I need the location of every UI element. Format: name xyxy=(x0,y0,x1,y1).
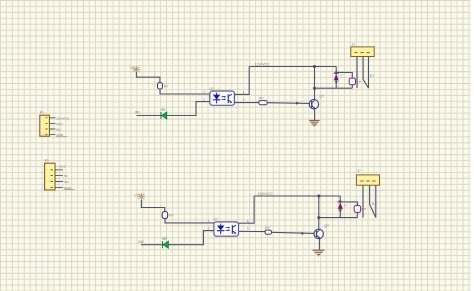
wire collector riser Q2 xyxy=(318,196,320,230)
junction (collector node top) xyxy=(313,65,316,68)
svg-text:J?: J? xyxy=(352,43,356,47)
wire U2 pin4 riser xyxy=(239,196,255,223)
svg-text:2: 2 xyxy=(203,98,205,102)
svg-text:U?: U? xyxy=(213,218,217,222)
svg-text:D?: D? xyxy=(344,203,348,207)
relay contact pins (bottom) xyxy=(362,185,364,217)
U2 phototransistor xyxy=(231,225,233,234)
net 12V/VCC wire (top) xyxy=(249,66,336,68)
connector P1 (4-pin, left top) xyxy=(40,111,70,137)
relay contact pins (top) xyxy=(356,57,358,89)
svg-text:2: 2 xyxy=(208,227,210,231)
svg-text:VCC: VCC xyxy=(135,193,143,197)
resistor R4 (base, bottom) xyxy=(265,230,271,234)
power VCC (top) xyxy=(133,66,141,72)
svg-text:3: 3 xyxy=(243,98,245,102)
svg-text:D?: D? xyxy=(340,73,344,77)
wire U1 pin3 to R2 xyxy=(234,102,258,104)
wire diode branch (bottom circuit) xyxy=(339,196,341,218)
svg-text:1: 1 xyxy=(208,219,210,223)
svg-text:R?: R? xyxy=(164,85,168,89)
svg-text:R?: R? xyxy=(265,226,269,230)
junction (loop bottom bottom circuit) xyxy=(317,216,320,219)
svg-text:Q?: Q? xyxy=(324,224,329,228)
svg-text:L?: L? xyxy=(164,237,168,241)
relay linkage dashes (bottom) xyxy=(362,208,366,210)
net 12V/VCC wire (bottom) xyxy=(254,195,340,197)
relay contact arm (bottom) xyxy=(370,204,376,217)
ground (top) xyxy=(309,120,319,125)
svg-text:4: 4 xyxy=(243,90,245,94)
transistor Q2 xyxy=(314,224,329,239)
wire U1 pin4 riser xyxy=(234,67,249,95)
junction (diode anode node top circuit) xyxy=(335,81,337,83)
wire coil branch (top circuit) xyxy=(336,72,352,78)
svg-text:Q?: Q? xyxy=(319,94,324,98)
junction (diode cathode node top circuit) xyxy=(335,71,337,73)
wire loop bottom (top circuit) xyxy=(315,87,353,89)
wire coil bottom (bottom circuit) xyxy=(356,213,358,218)
wire IN2 to LED L2 xyxy=(141,244,163,246)
resistor R3 xyxy=(162,212,167,219)
U1 led xyxy=(213,95,220,100)
U2 light arrows xyxy=(226,228,229,231)
connector J2 (3-pin, bottom right) xyxy=(356,169,379,185)
relay linkage dashes (top) xyxy=(357,80,361,82)
svg-text:12V/VCC: 12V/VCC xyxy=(255,63,271,67)
connector J1 (3-pin, top right) xyxy=(351,43,374,57)
relay coil K2 xyxy=(354,205,360,212)
svg-text:IN1: IN1 xyxy=(56,128,61,132)
U1 light arrows xyxy=(222,97,225,100)
svg-text:12V/VCC: 12V/VCC xyxy=(258,192,274,196)
U2 led xyxy=(217,226,224,231)
svg-text:J?: J? xyxy=(357,169,361,173)
wire IN1 to LED L1 xyxy=(137,115,162,117)
svg-text:1: 1 xyxy=(203,90,205,94)
LED L1 (green) xyxy=(161,108,167,119)
svg-text:IN2: IN2 xyxy=(139,240,144,244)
connector P2 (4-pin, left bottom) xyxy=(45,159,75,190)
wire R1 to U1 pin1 xyxy=(160,89,210,94)
svg-text:L?: L? xyxy=(162,108,166,112)
optocoupler U2 xyxy=(208,218,249,237)
wire R2 to Q1 base xyxy=(267,102,309,105)
resistor R1 xyxy=(158,83,163,89)
svg-text:3: 3 xyxy=(247,227,249,231)
wire VCC to R3 xyxy=(141,200,164,212)
wire R4 to Q2 base xyxy=(272,232,315,233)
svg-text:U?: U? xyxy=(209,87,213,91)
svg-text:12V/VCC: 12V/VCC xyxy=(56,116,70,120)
junction (diode anode node bottom circuit) xyxy=(339,210,341,212)
diode D1 (magenta flyback) xyxy=(334,73,344,80)
wire Q1 emitter to ground xyxy=(314,109,316,120)
base entry arrow (bottom) xyxy=(302,232,305,235)
transistor Q1 xyxy=(309,94,324,109)
wire collector riser Q1 xyxy=(314,67,316,101)
wire coil bottom (top circuit) xyxy=(351,85,353,88)
base entry arrow (top) xyxy=(296,102,299,105)
svg-text:P?: P? xyxy=(45,159,49,163)
junction (loop bottom top circuit) xyxy=(313,87,316,90)
junction (collector node bottom) xyxy=(317,195,320,198)
wire Q2 emitter to ground xyxy=(318,238,320,250)
wire coil branch (bottom circuit) xyxy=(340,202,357,205)
svg-text:R?: R? xyxy=(169,214,173,218)
wire loop bottom (bottom circuit) xyxy=(319,217,358,219)
relay coil K1 xyxy=(349,78,355,85)
svg-text:P?: P? xyxy=(40,111,44,115)
wire diode branch (top circuit) xyxy=(335,67,337,89)
optocoupler U1 xyxy=(203,87,244,106)
svg-text:R?: R? xyxy=(259,96,263,100)
diode D2 (magenta flyback) xyxy=(338,202,348,209)
relay contact arm (top) xyxy=(363,79,369,88)
LED L2 (green) xyxy=(162,237,168,249)
svg-text:VCC: VCC xyxy=(56,122,63,126)
svg-text:K?: K? xyxy=(372,202,377,206)
wire U2 pin3 to R4 xyxy=(239,230,266,232)
wire LED to U1 pin2 xyxy=(167,102,210,116)
junction (diode cathode node bottom circuit) xyxy=(339,200,341,202)
svg-text:K?: K? xyxy=(370,74,375,78)
svg-text:IN1: IN1 xyxy=(135,111,140,115)
U1 phototransistor xyxy=(227,94,229,103)
svg-text:IN2: IN2 xyxy=(64,180,69,184)
svg-text:VCC: VCC xyxy=(130,66,138,70)
wire VCC to R1 xyxy=(136,72,160,83)
wire R3 to U2 pin1 xyxy=(165,219,214,223)
ground (bottom) xyxy=(313,250,325,256)
wire LED to U2 pin2 xyxy=(168,231,214,245)
resistor R2 (base, top) xyxy=(259,101,267,105)
power VCC (bottom) xyxy=(137,193,145,200)
svg-text:VCC: VCC xyxy=(59,164,66,168)
